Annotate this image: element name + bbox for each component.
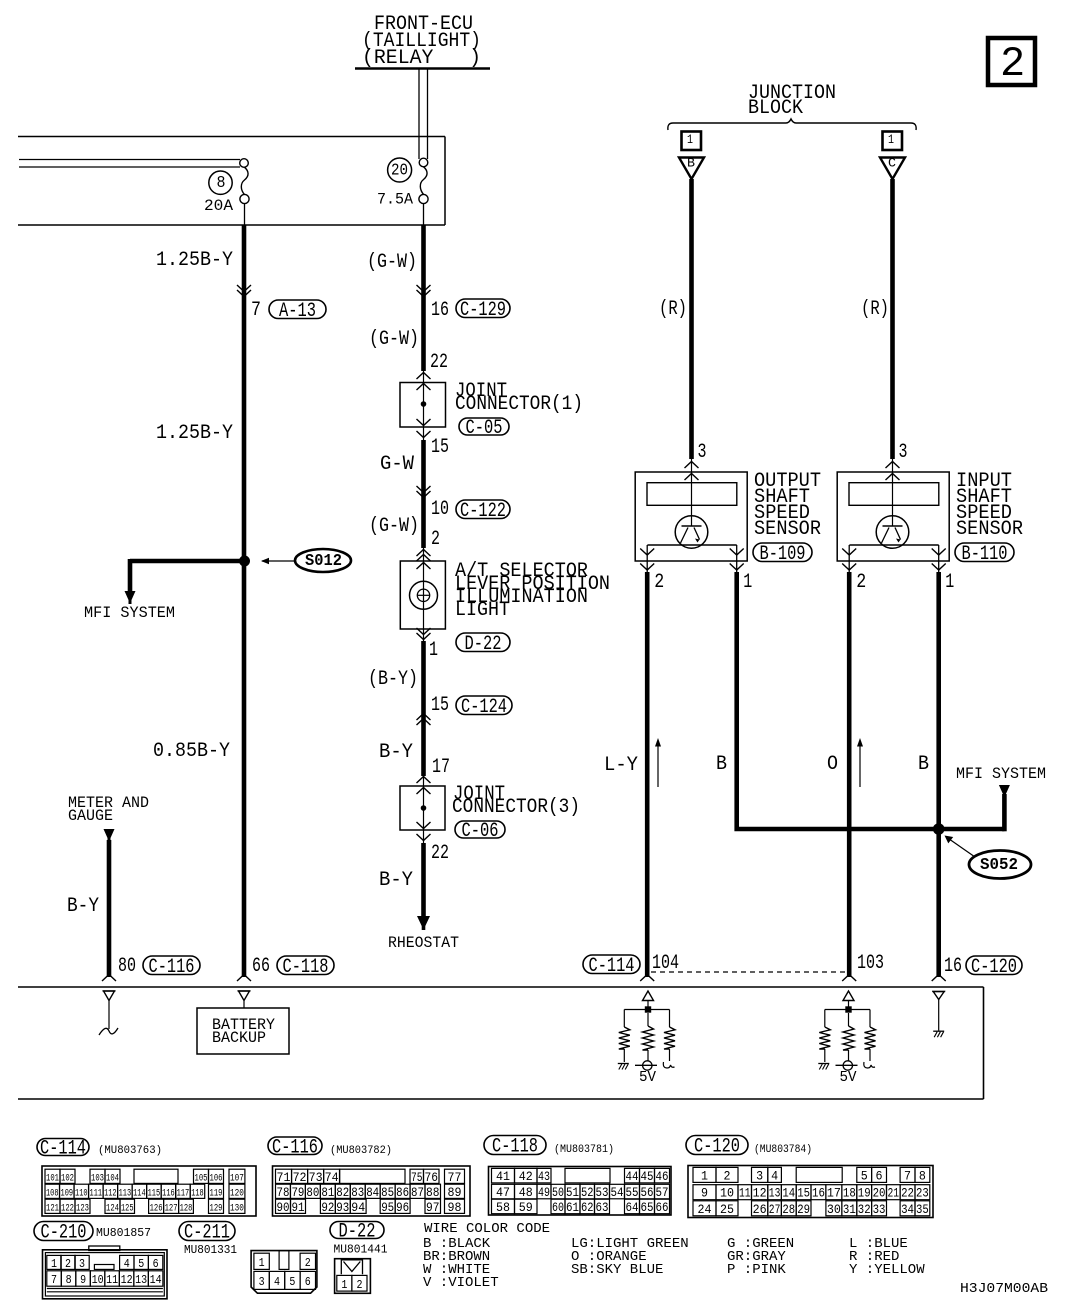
svg-text:1: 1 (429, 639, 438, 662)
label B (right) (918, 753, 929, 776)
svg-text:75: 75 (411, 1170, 423, 1185)
connector C-120 pinout table (688, 1166, 933, 1218)
svg-text:B-Y: B-Y (379, 741, 413, 764)
junction block terminal C triangle (880, 156, 905, 180)
svg-text:103: 103 (91, 1172, 104, 1184)
terminal triangle 80 (female) (103, 991, 116, 1001)
label G-W (380, 453, 415, 476)
chevron wire 80 to ECU (102, 975, 116, 982)
pin 17 joint connector 3 (432, 756, 450, 779)
svg-text:GAUGE: GAUGE (68, 807, 113, 825)
ground symbol terminal 16 (933, 1031, 944, 1037)
svg-text:BLOCK: BLOCK (748, 97, 804, 120)
svg-text:15: 15 (797, 1186, 810, 1201)
svg-text:66: 66 (252, 955, 270, 978)
label RHEOSTAT (388, 934, 459, 952)
part number MU803781 (554, 1144, 614, 1156)
connector D-22 title (330, 1221, 384, 1244)
pin 1 B-109 (743, 571, 752, 594)
svg-text:51: 51 (566, 1185, 579, 1200)
svg-text:C-120: C-120 (971, 956, 1017, 979)
svg-text:C-118: C-118 (492, 1136, 538, 1159)
svg-text:S012: S012 (305, 552, 342, 571)
BATTERY BACKUP box (197, 1008, 289, 1054)
label A/T SELECTOR LEVER POSITION ILLUMINATION LIGHT (455, 560, 610, 622)
svg-text:80: 80 (306, 1185, 319, 1200)
svg-text:17: 17 (827, 1186, 841, 1201)
svg-text:89: 89 (448, 1185, 462, 1200)
wire G-W segment 2 (421, 287, 426, 371)
label (R) left (659, 298, 687, 321)
svg-text:1: 1 (888, 132, 894, 147)
svg-text:85: 85 (381, 1185, 394, 1200)
svg-text:2: 2 (856, 571, 866, 594)
page number 2 box (988, 38, 1035, 88)
svg-text:B-110: B-110 (962, 543, 1008, 566)
svg-text:G-W: G-W (380, 453, 415, 476)
pin 1 and connector D-22 (429, 633, 510, 662)
joint connector (1) C-05 box (400, 371, 446, 440)
svg-text:35: 35 (916, 1202, 929, 1217)
chevron below joint connector 1 (417, 431, 431, 438)
part number MU801331 (184, 1243, 237, 1257)
svg-text:123: 123 (76, 1202, 89, 1214)
svg-text:2: 2 (356, 1278, 362, 1292)
svg-text:MU801331: MU801331 (184, 1243, 237, 1257)
direction arrow O (857, 738, 863, 787)
svg-text:105: 105 (195, 1172, 208, 1184)
svg-text:115: 115 (148, 1187, 161, 1199)
svg-text:12: 12 (753, 1186, 767, 1201)
label (G-W) 3 (369, 515, 419, 538)
connector crossing chevrons at C-124 (417, 714, 431, 726)
svg-text:110: 110 (75, 1187, 88, 1199)
svg-text:(R): (R) (659, 298, 687, 321)
svg-text:128: 128 (180, 1202, 193, 1214)
svg-text:108: 108 (46, 1187, 59, 1199)
svg-text:12: 12 (121, 1273, 133, 1287)
svg-text:BACKUP: BACKUP (212, 1029, 266, 1047)
svg-text:16: 16 (944, 955, 962, 978)
svg-text:46: 46 (656, 1169, 669, 1184)
wire L-Y output sensor pin2 to ECU 104 (645, 572, 650, 977)
svg-text:23: 23 (916, 1186, 929, 1201)
svg-text:119: 119 (210, 1187, 223, 1199)
wire to battery backup (243, 1001, 245, 1009)
svg-text:20A: 20A (204, 197, 233, 215)
svg-text:93: 93 (336, 1200, 349, 1215)
svg-text:71: 71 (277, 1170, 291, 1185)
connector D-22 drawing (335, 1259, 371, 1294)
svg-text:SENSOR: SENSOR (754, 518, 821, 541)
svg-text:116: 116 (162, 1187, 175, 1199)
svg-text:2: 2 (431, 528, 440, 551)
svg-text:48: 48 (519, 1185, 533, 1200)
svg-text:94: 94 (351, 1200, 365, 1215)
svg-text:H3J07M00AB: H3J07M00AB (960, 1281, 1048, 1297)
svg-text:B: B (918, 753, 929, 776)
wire B-Y segment (421, 713, 426, 776)
pin 3 B-109 (698, 441, 707, 464)
wire 1.25B-Y segment 2 (242, 287, 247, 558)
svg-text:D-22: D-22 (465, 633, 502, 656)
connector C-118 title (484, 1136, 546, 1159)
svg-text:114: 114 (133, 1187, 146, 1199)
junction block brace (668, 119, 916, 130)
svg-text:C-114: C-114 (40, 1138, 86, 1161)
svg-text:MU801441: MU801441 (334, 1243, 388, 1257)
svg-text:58: 58 (496, 1200, 510, 1215)
INPUT SHAFT sensor box B-110 (837, 459, 949, 561)
svg-text:44: 44 (626, 1169, 639, 1184)
svg-text:B-Y: B-Y (379, 869, 413, 892)
svg-text:127: 127 (165, 1202, 178, 1214)
svg-text:50: 50 (552, 1185, 564, 1200)
svg-text:103: 103 (857, 952, 884, 975)
svg-text:(G-W): (G-W) (367, 251, 417, 274)
FRONT-ECU (TAILLIGHT RELAY) label (355, 13, 490, 70)
svg-text:(B-Y): (B-Y) (368, 668, 418, 691)
svg-text:4: 4 (771, 1168, 778, 1183)
A/T selector lever position illumination light (400, 548, 445, 641)
wire B-Y to rheostat (421, 843, 426, 917)
svg-text:MFI SYSTEM: MFI SYSTEM (956, 765, 1046, 783)
svg-text:C-116: C-116 (272, 1136, 318, 1159)
svg-text:101: 101 (46, 1172, 59, 1184)
svg-text:3: 3 (756, 1168, 763, 1183)
svg-text:56: 56 (641, 1185, 654, 1200)
pin 104 label (652, 952, 679, 975)
svg-text:L-Y: L-Y (604, 754, 638, 777)
svg-text:104: 104 (652, 952, 679, 975)
svg-text:117: 117 (177, 1187, 190, 1199)
svg-text:RHEOSTAT: RHEOSTAT (388, 934, 459, 952)
connector C-120 title (686, 1136, 748, 1159)
svg-text:(R): (R) (861, 298, 889, 321)
drawing number H3J07M00AB (960, 1281, 1048, 1297)
svg-text:3: 3 (899, 441, 908, 464)
svg-text:121: 121 (46, 1202, 59, 1214)
svg-text:63: 63 (596, 1200, 609, 1215)
svg-text:19: 19 (858, 1186, 871, 1201)
svg-text:31: 31 (843, 1202, 856, 1217)
svg-text:2: 2 (724, 1168, 731, 1183)
svg-text:81: 81 (321, 1185, 334, 1200)
svg-text:53: 53 (596, 1185, 609, 1200)
svg-text:2: 2 (305, 1256, 311, 1270)
pin 3 B-110 (899, 441, 908, 464)
svg-text:98: 98 (448, 1200, 462, 1215)
svg-text:120: 120 (230, 1187, 244, 1199)
label 1.25B-Y (156, 249, 233, 272)
label INPUT SHAFT SPEED SENSOR (956, 470, 1023, 541)
svg-text:91: 91 (292, 1200, 305, 1215)
svg-text:B-Y: B-Y (67, 895, 99, 918)
svg-text:42: 42 (519, 1169, 533, 1184)
wire 0.85B-Y (242, 561, 247, 977)
svg-text:25: 25 (720, 1202, 734, 1217)
svg-text:60: 60 (552, 1200, 564, 1215)
svg-text:C-114: C-114 (589, 955, 635, 978)
svg-text:61: 61 (566, 1200, 579, 1215)
svg-text:SB:SKY BLUE: SB:SKY BLUE (571, 1262, 663, 1278)
bus wires to fuse 8 (double line) (19, 160, 240, 168)
svg-text:4: 4 (124, 1257, 130, 1271)
svg-text:3: 3 (79, 1257, 85, 1271)
pin 66 and connector C-118 label (252, 955, 334, 979)
svg-text:83: 83 (351, 1185, 364, 1200)
svg-text:MFI SYSTEM: MFI SYSTEM (84, 604, 175, 622)
connector C-211 drawing (251, 1251, 317, 1294)
wire B input sensor pin1 to ECU 16 (936, 572, 941, 977)
svg-text:6: 6 (305, 1275, 311, 1289)
wire B-Y meter (107, 840, 112, 977)
svg-text:5: 5 (289, 1275, 295, 1289)
label (G-W) 1 (367, 251, 417, 274)
svg-text:(G-W): (G-W) (369, 328, 419, 351)
ECU box (transmission control module) (18, 987, 984, 1099)
junction block terminal B fuse symbol square 1 (682, 132, 702, 151)
pin 2 B-109 (654, 571, 664, 594)
fuse 20 7.5A (377, 158, 428, 225)
part number MU801441 (334, 1243, 388, 1257)
chevron wire 103 to ECU (842, 975, 856, 982)
label B-Y (mid) (379, 741, 413, 764)
joint connector (3) C-06 box (400, 776, 445, 843)
svg-text:11: 11 (739, 1186, 751, 1201)
pin 15 and connector C-124 (431, 694, 512, 719)
svg-text:118: 118 (191, 1187, 204, 1199)
label MFI SYSTEM (left) (84, 604, 175, 622)
svg-text:124: 124 (106, 1202, 119, 1214)
svg-text:1: 1 (687, 132, 693, 147)
svg-text:66: 66 (656, 1200, 669, 1215)
svg-text:P :PINK: P :PINK (727, 1262, 786, 1278)
splice S012 junction dot (240, 556, 250, 566)
S012 splice callout (261, 549, 351, 572)
svg-text:3: 3 (259, 1275, 265, 1289)
terminal 104 pull-up/pull-down resistor network with 5V source and ground (618, 991, 675, 1086)
svg-text:11: 11 (106, 1273, 118, 1287)
svg-text:122: 122 (61, 1202, 74, 1214)
svg-text:26: 26 (753, 1202, 767, 1217)
chevron above OUTPUT sensor (685, 462, 699, 469)
svg-text:16: 16 (431, 299, 449, 322)
svg-text:14: 14 (150, 1273, 162, 1287)
chevron above joint connector 3 (417, 777, 431, 784)
svg-text:B-109: B-109 (760, 543, 806, 566)
label 1.25B-Y (2) (156, 422, 233, 445)
label B (left) (716, 753, 727, 776)
svg-text:43: 43 (538, 1169, 550, 1184)
pin 2 B-110 (856, 571, 866, 594)
label METER AND GAUGE (68, 794, 149, 825)
svg-text:78: 78 (277, 1185, 290, 1200)
connector B-109 label (753, 543, 812, 566)
svg-text:6: 6 (153, 1257, 159, 1271)
wire MFI SYSTEM leg (1002, 794, 1007, 831)
fuse 8 20A (204, 159, 249, 225)
svg-text:3: 3 (698, 441, 707, 464)
svg-text:33: 33 (873, 1202, 886, 1217)
wire G-W segment 3 (421, 440, 426, 489)
svg-text:62: 62 (581, 1200, 594, 1215)
svg-text:97: 97 (426, 1200, 440, 1215)
label JOINT CONNECTOR(3) (452, 783, 580, 819)
arrow to MFI SYSTEM (left) (125, 591, 136, 604)
svg-text:22: 22 (901, 1186, 914, 1201)
svg-text:41: 41 (496, 1169, 510, 1184)
svg-text:113: 113 (119, 1187, 132, 1199)
svg-text:79: 79 (291, 1185, 304, 1200)
label (G-W) 2 (369, 328, 419, 351)
chevron above joint connector 1 (417, 373, 431, 380)
pin 10 and connector C-122 (431, 498, 510, 523)
junction block terminal B triangle (679, 156, 704, 180)
svg-text:2: 2 (1000, 40, 1025, 88)
svg-text:4: 4 (274, 1275, 280, 1289)
chevrons below B-110 pins (842, 561, 946, 572)
svg-text:(G-W): (G-W) (369, 515, 419, 538)
svg-text:SENSOR: SENSOR (956, 518, 1023, 541)
pin 103 label (857, 952, 884, 975)
connector C-118 pinout table (489, 1167, 672, 1216)
direction arrow L-Y (655, 738, 661, 787)
svg-text:C-211: C-211 (184, 1222, 230, 1245)
label JUNCTION BLOCK (748, 82, 836, 120)
svg-text:9: 9 (701, 1186, 708, 1201)
svg-text:5V: 5V (639, 1069, 656, 1086)
svg-text:84: 84 (366, 1185, 379, 1200)
svg-text:10: 10 (92, 1273, 104, 1287)
part number MU803763 (98, 1145, 162, 1157)
chevron wire 16 to ECU (932, 975, 946, 982)
svg-text:34: 34 (901, 1202, 914, 1217)
pin 7 and connector A-13 (251, 299, 326, 323)
label JOINT CONNECTOR(1) (455, 380, 583, 416)
terminal triangle 66 (female) (238, 991, 251, 1001)
svg-text:8: 8 (66, 1273, 72, 1287)
ground continuation squiggle (pin 80) (99, 1001, 118, 1036)
pin 2 A/T selector light (431, 528, 440, 551)
chevron above INPUT sensor (886, 462, 900, 469)
connector crossing chevrons at C-129 (417, 285, 431, 297)
svg-text:C-129: C-129 (460, 299, 506, 322)
svg-text:5: 5 (138, 1257, 144, 1271)
connector B-110 label (955, 543, 1014, 566)
dashed pairing line 104-103 (651, 971, 846, 973)
connector C-05 label (459, 417, 509, 440)
branch wire to MFI SYSTEM (left) (130, 559, 244, 591)
svg-text:(RELAY ): (RELAY ) (362, 47, 481, 70)
svg-text:9: 9 (80, 1273, 86, 1287)
svg-text:C-118: C-118 (283, 956, 329, 979)
svg-text:104: 104 (106, 1172, 119, 1184)
wire O input sensor pin2 to ECU 103 (847, 572, 852, 977)
svg-text:C-120: C-120 (694, 1136, 740, 1159)
chevron below joint connector 3 (417, 834, 431, 841)
wire (B-Y) (421, 641, 426, 713)
pin 15 below joint connector 1 (431, 436, 449, 459)
svg-text:72: 72 (293, 1170, 307, 1185)
svg-text:24: 24 (698, 1202, 712, 1217)
part number MU801857 (96, 1226, 151, 1240)
svg-text:V :VIOLET: V :VIOLET (423, 1275, 499, 1291)
svg-text:107: 107 (230, 1172, 244, 1184)
svg-text:129: 129 (210, 1202, 223, 1214)
svg-text:47: 47 (496, 1185, 510, 1200)
svg-text:8: 8 (919, 1168, 926, 1183)
svg-text:30: 30 (827, 1202, 841, 1217)
terminal 103 pull-up/pull-down resistor network with 5V source and ground (818, 991, 875, 1086)
svg-text:20: 20 (873, 1186, 886, 1201)
connector C-116 title (268, 1136, 322, 1159)
svg-text:80: 80 (118, 955, 136, 978)
svg-text:92: 92 (321, 1200, 334, 1215)
svg-text:C-06: C-06 (462, 820, 499, 843)
svg-text:15: 15 (431, 436, 449, 459)
svg-text:59: 59 (519, 1200, 533, 1215)
svg-text:1.25B-Y: 1.25B-Y (156, 422, 233, 445)
svg-text:106: 106 (210, 1172, 223, 1184)
arrow to RHEOSTAT (417, 916, 430, 930)
connector C-114 pinout table (42, 1166, 256, 1216)
svg-text:74: 74 (325, 1170, 339, 1185)
svg-text:(MU803784): (MU803784) (754, 1144, 812, 1156)
svg-text:6: 6 (876, 1168, 883, 1183)
pin 80 and connector C-116 label (118, 955, 200, 979)
svg-text:65: 65 (641, 1200, 654, 1215)
svg-text:C-210: C-210 (41, 1222, 87, 1245)
wire G-W segment 4 (421, 489, 426, 548)
svg-text:(MU803763): (MU803763) (98, 1145, 162, 1157)
svg-text:D-22: D-22 (339, 1221, 376, 1244)
svg-text:45: 45 (641, 1169, 654, 1184)
svg-text:52: 52 (581, 1185, 594, 1200)
svg-text:20: 20 (391, 162, 408, 181)
wire 1.25B-Y from fuse 8 (242, 225, 247, 287)
label B-Y (meter) (67, 895, 99, 918)
pin 16 and connector C-129 (431, 299, 510, 322)
svg-text:A-13: A-13 (279, 300, 316, 323)
svg-text:7.5A: 7.5A (377, 191, 413, 209)
connector C-211 title (179, 1222, 235, 1245)
part number MU803782 (330, 1145, 392, 1157)
svg-text:CONNECTOR(3): CONNECTOR(3) (452, 796, 580, 819)
connector C-114 label (wire side) (583, 955, 640, 978)
svg-text:73: 73 (309, 1170, 323, 1185)
wire B output sensor pin1 to splice (737, 572, 1005, 829)
svg-text:95: 95 (381, 1200, 394, 1215)
svg-text:CONNECTOR(1): CONNECTOR(1) (455, 393, 583, 416)
terminal 16 ground (female triangle) (932, 992, 945, 1031)
svg-text:76: 76 (425, 1170, 439, 1185)
svg-text:96: 96 (396, 1200, 409, 1215)
junction block terminal C fuse symbol square 1 (883, 132, 903, 151)
svg-text:22: 22 (430, 351, 448, 374)
svg-text:49: 49 (538, 1185, 550, 1200)
svg-text:32: 32 (858, 1202, 871, 1217)
fuse box (dedicated fuse block) (18, 137, 445, 226)
connector C-06 label (455, 820, 505, 843)
pin 22 joint connector 1 (430, 351, 448, 374)
svg-text:8: 8 (217, 174, 226, 193)
svg-text:0.85B-Y: 0.85B-Y (153, 740, 230, 763)
svg-text:16: 16 (812, 1186, 825, 1201)
svg-text:88: 88 (426, 1185, 440, 1200)
label O (827, 753, 838, 776)
svg-text:27: 27 (769, 1202, 781, 1217)
